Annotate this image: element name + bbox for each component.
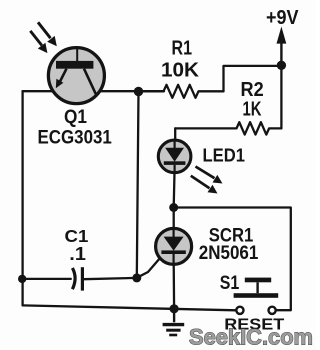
- wire node down to SCR1 anode: [173, 208, 175, 230]
- node left rail / C1: [18, 275, 26, 283]
- ground: [163, 309, 185, 335]
- light arrow into Q1 (upper): [38, 22, 57, 46]
- wire LED1 cathode to node: [173, 173, 176, 208]
- svg-text:2N5061: 2N5061: [199, 242, 259, 264]
- svg-text:SeekIC.com: SeekIC.com: [189, 324, 313, 349]
- svg-text:S1: S1: [220, 272, 240, 294]
- svg-text:R1: R1: [172, 38, 193, 60]
- wire left rail to C1: [22, 278, 71, 280]
- svg-text:LED1: LED1: [203, 145, 246, 166]
- light arrow out of LED1 (upper): [196, 167, 223, 184]
- wire SCR1 cathode to bottom rail: [173, 263, 176, 309]
- resistor R1: [139, 85, 224, 98]
- watermark SeekIC.com: [189, 324, 313, 349]
- wire left rail vertical: [21, 91, 23, 305]
- resistor R2: [175, 122, 281, 134]
- SCR SCR1: [138, 228, 192, 277]
- svg-text:10K: 10K: [161, 60, 200, 82]
- svg-text:+9V: +9V: [266, 7, 299, 29]
- light arrow out of LED1 (lower): [191, 176, 218, 194]
- wire Q1 node down to C1 node: [137, 92, 139, 278]
- light arrow into Q1 (lower): [30, 31, 47, 53]
- node C1 / SCR gate: [132, 273, 141, 282]
- svg-text:1K: 1K: [243, 98, 262, 121]
- node Q1/C1 branch: [134, 87, 143, 96]
- svg-text:.1: .1: [69, 243, 86, 264]
- LED LED1: [158, 140, 191, 173]
- node ground: [170, 304, 179, 313]
- switch S1: [234, 278, 279, 314]
- wire C1 to gate node: [84, 278, 137, 279]
- wire node to right rail and down to S1: [174, 208, 291, 311]
- wire R1 to +9V node (step): [224, 66, 282, 91]
- phototransistor Q1: [48, 48, 104, 104]
- svg-text:ECG3031: ECG3031: [38, 127, 112, 149]
- node +9V: [277, 61, 286, 70]
- wire +9V node down to R2: [280, 65, 282, 128]
- wire top horizontal (Q1 collector row to R1): [23, 90, 164, 92]
- node LED1 cathode: [169, 203, 178, 212]
- capacitor C1: [72, 267, 82, 290]
- wire R2 row down to LED1 anode: [174, 128, 176, 141]
- svg-text:Q1: Q1: [64, 107, 87, 128]
- power +9V arrow: [277, 27, 287, 64]
- wire bottom rail: [23, 305, 237, 310]
